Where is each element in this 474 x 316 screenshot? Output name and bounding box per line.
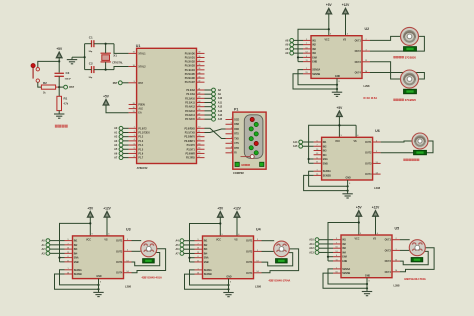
svg-text:VCC: VCC (86, 240, 91, 242)
svg-text:SENSB: SENSB (323, 175, 331, 177)
power +12V for U5 (372, 206, 380, 236)
resistor R1 (57, 87, 69, 111)
svg-text:ENA: ENA (204, 257, 209, 260)
svg-text:+5V: +5V (56, 47, 63, 51)
ground below R1 (54, 111, 64, 119)
svg-text:8: 8 (231, 142, 232, 144)
serial port P1 COMPIM (226, 107, 267, 174)
wire OUT3/OUT4 around stepper SM1 (132, 249, 166, 273)
svg-text:R2: R2 (43, 81, 47, 85)
wire ENA/ENB to +5V of U5 (327, 221, 360, 261)
svg-text:L298: L298 (374, 186, 380, 190)
svg-text:37GB520: 37GB520 (405, 55, 417, 59)
wire XTAL2 net (94, 62, 129, 71)
svg-text:OUT4: OUT4 (385, 271, 392, 274)
stepper motor SM1 (141, 241, 162, 280)
svg-text:PSEN: PSEN (138, 105, 145, 107)
svg-text:ALE: ALE (138, 108, 143, 111)
wire OUT1/OUT2 to motor M1 (370, 36, 424, 51)
svg-text:VS: VS (104, 240, 108, 242)
wire SENSA/SENSB to ground of U5 (323, 269, 368, 290)
svg-text:P0.2/AD2: P0.2/AD2 (185, 61, 196, 64)
svg-text:A15: A15 (218, 118, 223, 121)
svg-text:ENA: ENA (312, 56, 317, 59)
svg-text:37GB520: 37GB520 (405, 98, 417, 102)
svg-text:P1: P1 (234, 107, 238, 111)
svg-text:+5V: +5V (356, 206, 363, 210)
DC motor cart drive (404, 133, 429, 161)
svg-text:P1.4: P1.4 (138, 144, 143, 147)
svg-text:A14: A14 (293, 141, 298, 144)
svg-text:OUT1: OUT1 (365, 142, 372, 144)
input terminals A8/A9/A8/A9 for U2 (285, 39, 303, 56)
svg-text:P0.3/AD3: P0.3/AD3 (185, 65, 196, 68)
svg-text:C3: C3 (66, 71, 70, 75)
svg-text:ENB: ENB (323, 163, 328, 165)
svg-text:SENSB: SENSB (342, 273, 350, 275)
svg-text:OUT4: OUT4 (116, 272, 123, 275)
wire XTAL1 net (94, 43, 129, 54)
power +12V for U4 (233, 207, 241, 237)
svg-text:P3.5/T1: P3.5/T1 (187, 149, 196, 151)
svg-text:100nF: 100nF (65, 78, 72, 80)
svg-text:R1: R1 (64, 97, 68, 101)
svg-text:U4: U4 (256, 228, 261, 232)
svg-text:P0.1/AD1: P0.1/AD1 (185, 57, 196, 60)
svg-text:42BYGH40-1704A: 42BYGH40-1704A (404, 277, 426, 281)
svg-text:L298: L298 (125, 284, 131, 288)
wire ENA/ENB to +5V of U6 (308, 124, 341, 163)
input terminals A10/A11/A12/A13 for U5 (309, 238, 333, 255)
svg-text:P3.4/T0: P3.4/T0 (187, 144, 196, 147)
capacitor C3 (55, 71, 72, 87)
svg-text:OUT3: OUT3 (355, 62, 362, 64)
svg-text:+12V: +12V (103, 206, 111, 210)
ground for crystal caps (67, 57, 77, 64)
svg-text:L298: L298 (364, 84, 370, 88)
svg-text:U5: U5 (395, 227, 400, 231)
push button reset (31, 64, 40, 83)
svg-text:SENSA: SENSA (312, 69, 320, 72)
node RST-net junction (58, 86, 60, 88)
svg-text:A13: A13 (309, 251, 314, 254)
svg-text:P3.2/INT0: P3.2/INT0 (184, 137, 195, 139)
svg-text:P1.1/T2EX: P1.1/T2EX (138, 132, 150, 134)
svg-text:OUT1: OUT1 (246, 241, 253, 243)
svg-text:SENSA: SENSA (204, 269, 212, 272)
svg-text:+5V: +5V (217, 207, 224, 211)
input terminals A0/A1/A2/A3 for U3 (41, 239, 64, 256)
ground symbol for U6 (342, 180, 352, 198)
svg-text:C2: C2 (89, 62, 93, 66)
svg-text:TXD: TXD (234, 138, 239, 140)
COMPIM status squares and error text (235, 162, 264, 167)
svg-text:P1.0/T2: P1.0/T2 (138, 128, 147, 130)
svg-text:A12: A12 (309, 247, 314, 250)
svg-text:OUT1: OUT1 (116, 241, 123, 243)
svg-text:OUT2: OUT2 (246, 251, 253, 253)
wire OUT3/OUT4 around stepper SM2 (262, 249, 299, 273)
svg-text:2: 2 (231, 127, 232, 129)
svg-text:DCD: DCD (234, 119, 239, 121)
svg-text:A13: A13 (218, 110, 223, 113)
wire RXD/TXD crossover to P1 (205, 128, 226, 138)
wire VS to +5V rail of U6 (338, 124, 356, 137)
svg-text:VCC: VCC (335, 141, 340, 143)
svg-text:SENSA: SENSA (74, 269, 82, 272)
wire SENSA/SENSB to ground of U3 (55, 270, 100, 291)
svg-text:+5V: +5V (87, 206, 94, 210)
wire SENSA/SENSB to ground of U6 (304, 171, 349, 192)
svg-text:XTAL1: XTAL1 (138, 52, 146, 55)
svg-text:RST: RST (69, 86, 74, 89)
svg-text:P3.7/RD: P3.7/RD (186, 158, 195, 160)
svg-text:30p: 30p (89, 51, 93, 53)
svg-text:SENSB: SENSB (74, 274, 82, 276)
microcontroller U1 AT89C52 (129, 44, 205, 170)
svg-text:42BYGH45-401A: 42BYGH45-401A (142, 276, 162, 280)
svg-text:U3: U3 (126, 227, 131, 231)
ground symbol for U2 (332, 78, 342, 96)
svg-text:VCC: VCC (216, 240, 221, 242)
svg-text:6: 6 (231, 123, 232, 125)
svg-text:XTAL2: XTAL2 (138, 66, 146, 69)
svg-text:42BYGH40-1704A: 42BYGH40-1704A (269, 279, 291, 283)
DC motor M2 bottom conveyor (394, 70, 419, 102)
power +5V for U3 (87, 206, 94, 236)
L298 driver U6 (314, 129, 381, 190)
svg-text:P1.5: P1.5 (138, 149, 143, 151)
svg-text:P2.3/A11: P2.3/A11 (185, 102, 195, 105)
wire SENSA/SENSB to ground of U4 (185, 270, 230, 291)
svg-text:VS: VS (343, 39, 347, 41)
svg-text:OUT3: OUT3 (116, 262, 123, 264)
wire ENA/ENB to +5V of U3 (58, 222, 91, 262)
L298 driver U5 (333, 227, 400, 288)
svg-text:P0.4/AD4: P0.4/AD4 (185, 69, 196, 72)
wire button to +5V (38, 61, 59, 67)
svg-text:A15: A15 (293, 145, 298, 148)
svg-text:X1: X1 (113, 54, 117, 58)
resistor R2 (41, 81, 59, 94)
svg-text:OUT3: OUT3 (385, 261, 392, 263)
L298 driver U2 (303, 27, 370, 88)
power +5V to EA pin (103, 94, 128, 112)
svg-text:GND: GND (335, 76, 340, 78)
power +5V for U5 (356, 206, 363, 236)
svg-text:OUT2: OUT2 (365, 153, 372, 155)
svg-text:P2.7/A15: P2.7/A15 (185, 118, 195, 121)
ground symbol for U5 (362, 278, 372, 296)
svg-text:RTS: RTS (234, 134, 239, 136)
svg-text:RXD: RXD (234, 129, 239, 131)
svg-text:VS: VS (373, 239, 377, 241)
svg-text:U6: U6 (375, 129, 380, 133)
wire SENSA/SENSB to ground of U2 (293, 70, 338, 91)
svg-text:DTR: DTR (234, 148, 239, 150)
svg-text:+5V: +5V (326, 3, 333, 7)
svg-text:D=4C I2.5A: D=4C I2.5A (364, 96, 378, 100)
svg-text:P0.0/AD0: P0.0/AD0 (185, 52, 196, 55)
stepper motor SM2 (269, 241, 291, 282)
svg-text:ENB: ENB (74, 262, 79, 264)
svg-text:CRYSTAL: CRYSTAL (112, 62, 123, 65)
terminal RST to U1 (113, 81, 129, 85)
svg-text:OUT4: OUT4 (246, 272, 253, 275)
svg-text:VS: VS (234, 240, 238, 242)
L298 driver U4 (195, 228, 262, 289)
power +5V for U6 (337, 106, 344, 138)
svg-text:P2.4/A12: P2.4/A12 (185, 106, 195, 109)
capacitor C2 (89, 62, 94, 80)
ground symbol for U3 (93, 279, 103, 297)
wire button to R2 (38, 82, 42, 87)
wire ENA/ENB to +5V of U2 (297, 28, 330, 62)
power +5V reset rail (56, 47, 63, 73)
svg-text:C1: C1 (89, 36, 93, 40)
svg-text:VCC: VCC (325, 39, 330, 41)
wire ENA/ENB to +5V of U4 (188, 222, 221, 262)
svg-text:L298: L298 (394, 284, 400, 288)
svg-text:ENA: ENA (323, 158, 328, 161)
svg-text:P2.6/A14: P2.6/A14 (185, 114, 195, 117)
L298 driver U3 (65, 227, 132, 288)
svg-text:A10: A10 (218, 97, 223, 100)
svg-text:ENB: ENB (204, 262, 209, 264)
svg-text:GND: GND (346, 178, 351, 180)
terminals A8-A15 on P2 port (205, 88, 223, 121)
DC motor M1 top conveyor (394, 27, 419, 59)
svg-text:OUT2: OUT2 (116, 251, 123, 253)
crystal X1 (101, 53, 124, 64)
svg-text:A12: A12 (218, 106, 223, 109)
power +12V for U2 (342, 3, 350, 36)
power +5V for U2 (326, 3, 333, 36)
label reset circuit (55, 125, 68, 128)
svg-text:VCC: VCC (355, 239, 360, 241)
svg-text:RST: RST (138, 83, 143, 85)
svg-text:U1: U1 (136, 44, 141, 48)
svg-text:P2.0/A8: P2.0/A8 (186, 89, 195, 92)
svg-text:L298: L298 (255, 285, 261, 289)
wire OUT1/OUT2 to stepper SM1 (132, 241, 142, 252)
svg-text:P3.0/RXD: P3.0/RXD (184, 128, 195, 130)
svg-text:OUT1: OUT1 (385, 240, 392, 242)
wire OUT1/OUT2 to stepper SM2 (262, 241, 275, 252)
svg-text:U2: U2 (365, 27, 370, 31)
wire OUT3/OUT4 to motor M2 (370, 62, 424, 79)
svg-text:COMPIM: COMPIM (233, 171, 244, 175)
svg-text:7: 7 (231, 132, 232, 134)
input terminals A4/A5/A6/A7 for U4 (175, 239, 194, 256)
svg-text:P1.7: P1.7 (138, 158, 143, 160)
svg-text:OUT1: OUT1 (355, 40, 362, 42)
svg-text:OUT2: OUT2 (385, 250, 392, 252)
power +12V for U3 (103, 206, 111, 236)
svg-text:P3.6/WR: P3.6/WR (185, 153, 195, 155)
svg-text:P3.1/TXD: P3.1/TXD (185, 132, 195, 134)
svg-text:RI: RI (234, 153, 237, 155)
svg-text:P1.3: P1.3 (138, 141, 143, 143)
ground symbol for U4 (223, 279, 233, 297)
label current rating (364, 96, 378, 100)
svg-text:SENSB: SENSB (312, 74, 320, 76)
svg-text:P1.2: P1.2 (138, 137, 143, 139)
svg-text:OUT3: OUT3 (365, 163, 372, 165)
svg-text:30p: 30p (89, 77, 93, 79)
svg-text:OUT4: OUT4 (355, 72, 362, 75)
svg-text:OUT3: OUT3 (246, 262, 253, 264)
svg-text:+5V: +5V (103, 94, 110, 98)
svg-text:4.7k: 4.7k (64, 102, 69, 105)
input terminals A14/A15 for U6 (293, 140, 314, 148)
svg-text:OUT4: OUT4 (365, 173, 372, 176)
svg-text:A11: A11 (218, 101, 223, 104)
svg-text:A11: A11 (309, 243, 314, 246)
svg-text:+12V: +12V (233, 207, 241, 211)
terminal RST (reset net) (59, 85, 74, 89)
svg-text:P2.2/A10: P2.2/A10 (185, 97, 195, 100)
power +5V for U4 (217, 207, 224, 237)
capacitor C1 (89, 36, 94, 54)
svg-text:ENB: ENB (312, 62, 317, 64)
svg-text:ERROR: ERROR (242, 164, 251, 167)
wire C1/C2 left rail (72, 44, 92, 70)
wire OUT1/OUT2 to stepper SM3 (400, 240, 410, 251)
svg-text:+12V: +12V (372, 206, 380, 210)
svg-text:EA: EA (138, 112, 142, 115)
svg-text:3: 3 (231, 137, 232, 139)
svg-text:P0.7/AD7: P0.7/AD7 (185, 81, 196, 84)
svg-text:A10: A10 (309, 239, 314, 242)
wire OUT3/OUT4 around stepper SM3 (400, 248, 434, 272)
svg-text:DSR: DSR (234, 124, 239, 126)
svg-text:P1.6: P1.6 (138, 153, 143, 155)
terminals A0-A7 on P1 port (114, 126, 129, 159)
svg-text:A14: A14 (218, 114, 223, 117)
svg-text:P0.5/AD5: P0.5/AD5 (185, 73, 196, 76)
svg-text:GND: GND (226, 276, 231, 278)
svg-text:ENA: ENA (74, 257, 79, 260)
svg-text:9: 9 (231, 151, 232, 153)
stepper motor SM3 (404, 240, 426, 282)
DB9 connector graphic (241, 115, 263, 159)
svg-text:RST: RST (113, 82, 118, 85)
svg-text:OUT2: OUT2 (355, 51, 362, 53)
svg-text:GND: GND (96, 276, 101, 278)
wire OUT1/OUT2 to drive motor (381, 141, 433, 153)
svg-text:SENSA: SENSA (342, 268, 350, 271)
svg-text:+5V: +5V (337, 106, 344, 110)
svg-text:+12V: +12V (342, 3, 350, 7)
svg-text:P3.3/INT1: P3.3/INT1 (184, 141, 195, 143)
svg-text:P2.5/A13: P2.5/A13 (185, 110, 195, 113)
svg-text:ENB: ENB (342, 261, 347, 263)
svg-text:P0.6/AD6: P0.6/AD6 (185, 77, 196, 80)
svg-text:VS: VS (354, 141, 358, 143)
svg-text:CTS: CTS (234, 143, 239, 145)
svg-text:P2.1/A9: P2.1/A9 (186, 93, 195, 96)
svg-text:SENSA: SENSA (323, 170, 331, 173)
svg-text:AT89C52: AT89C52 (137, 166, 148, 170)
svg-text:ENA: ENA (342, 256, 347, 259)
svg-text:1: 1 (231, 118, 232, 120)
svg-text:SENSB: SENSB (204, 274, 212, 276)
svg-text:GND: GND (365, 275, 370, 277)
